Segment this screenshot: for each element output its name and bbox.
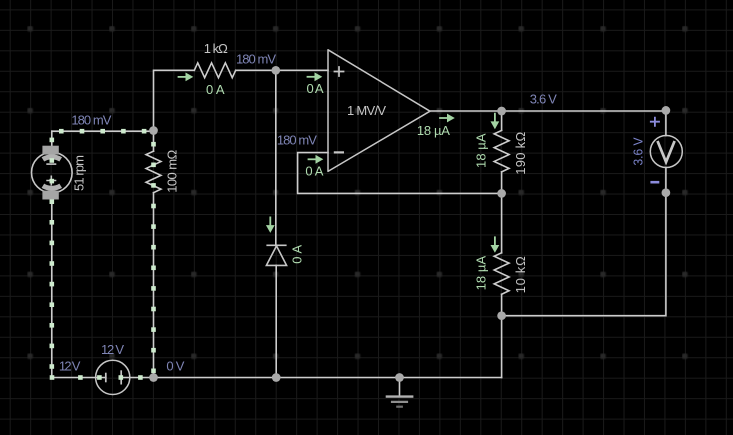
svg-text:100 mΩ: 100 mΩ (164, 150, 179, 193)
svg-text:1 kΩ: 1 kΩ (204, 41, 228, 56)
svg-text:18 µA: 18 µA (473, 256, 488, 291)
svg-text:1 MV/V: 1 MV/V (347, 103, 386, 118)
svg-text:180 mV: 180 mV (277, 133, 317, 148)
svg-text:0 A: 0 A (305, 164, 323, 179)
svg-text:10 kΩ: 10 kΩ (513, 256, 528, 293)
svg-text:18 µA: 18 µA (473, 133, 488, 168)
svg-text:12 V: 12 V (101, 342, 124, 357)
svg-text:0 A: 0 A (206, 82, 225, 97)
svg-text:180 mV: 180 mV (236, 52, 276, 67)
svg-text:0 A: 0 A (289, 244, 304, 263)
svg-text:18 µA: 18 µA (417, 123, 450, 138)
svg-text:190 kΩ: 190 kΩ (513, 132, 528, 175)
svg-text:0 V: 0 V (166, 359, 184, 374)
svg-text:180 mV: 180 mV (71, 113, 111, 128)
svg-text:3.6 V: 3.6 V (630, 137, 645, 165)
svg-text:51 rpm: 51 rpm (72, 155, 87, 191)
svg-text:12 V: 12 V (59, 359, 81, 374)
svg-text:3.6 V: 3.6 V (530, 92, 557, 107)
svg-text:0 A: 0 A (307, 81, 324, 96)
